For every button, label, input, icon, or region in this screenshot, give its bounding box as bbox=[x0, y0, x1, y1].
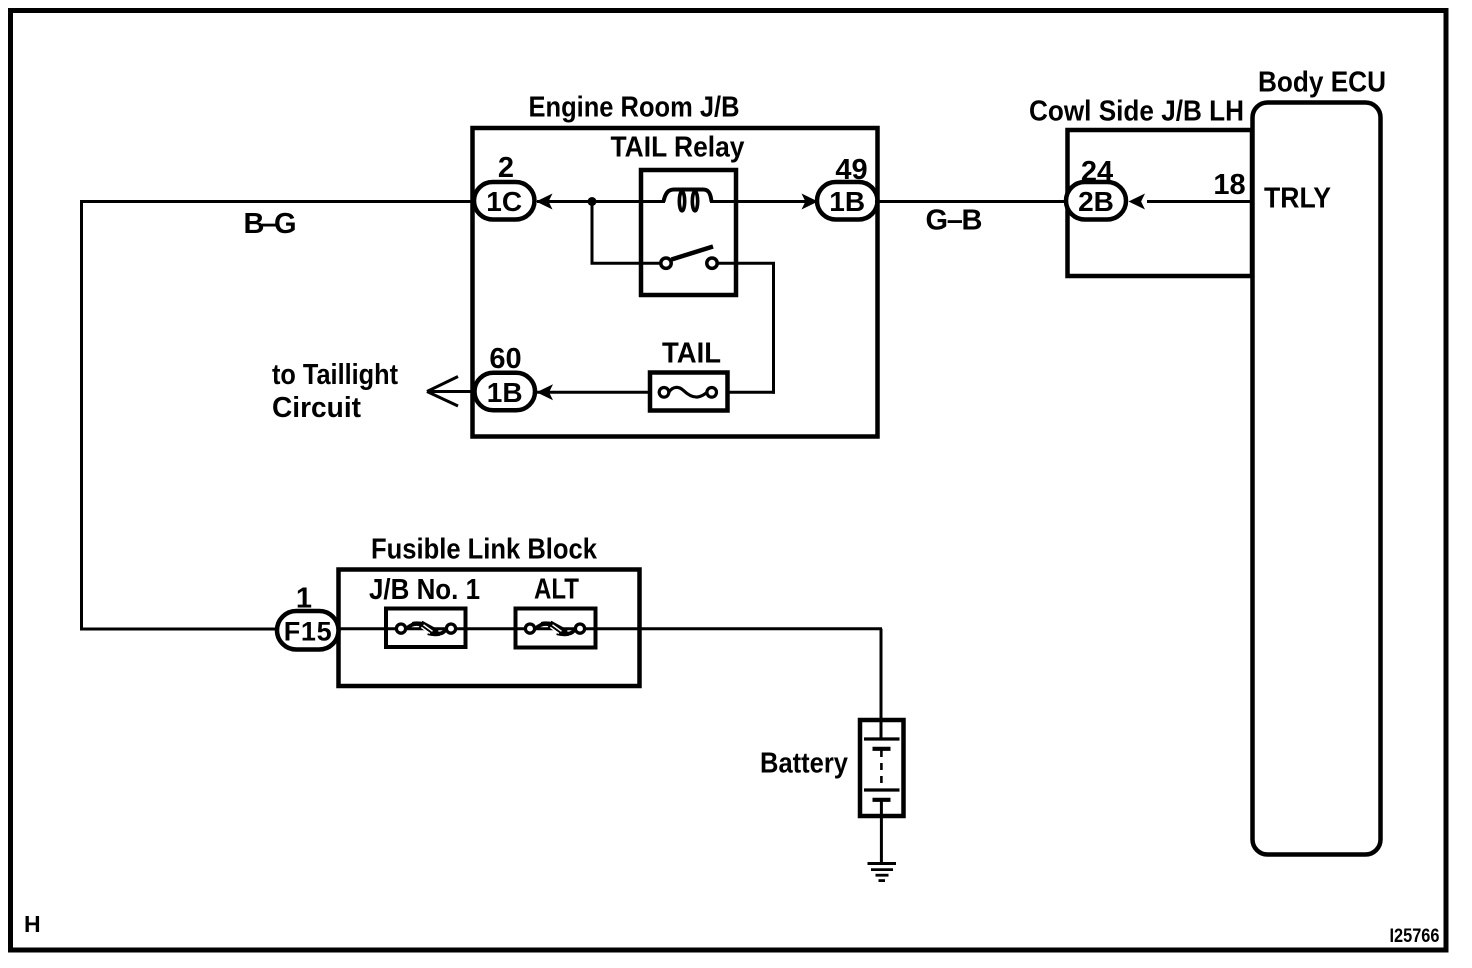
pin label 60 bbox=[489, 343, 521, 375]
svg-text:1B: 1B bbox=[829, 186, 865, 217]
connector 1C bbox=[474, 182, 535, 220]
fusible link J/B No.1 bbox=[386, 609, 466, 648]
wire left vertical B-G down bbox=[80, 200, 83, 631]
Body ECU box bbox=[1253, 103, 1381, 855]
connector F15 bbox=[277, 611, 339, 650]
wire battery to ground bbox=[880, 800, 883, 864]
node junction dot bbox=[588, 197, 597, 206]
label Engine Room J/B bbox=[529, 92, 740, 124]
svg-text:TRLY: TRLY bbox=[1264, 183, 1331, 215]
wire through fusible link block bbox=[336, 627, 882, 630]
pin label 49 bbox=[835, 154, 867, 186]
svg-text:1B: 1B bbox=[487, 377, 523, 408]
wire B-G from node to connector 1C bbox=[80, 200, 476, 203]
svg-text:to Taillight: to Taillight bbox=[272, 359, 398, 391]
connector 1B pin49 bbox=[817, 182, 878, 220]
pin label 18 bbox=[1213, 169, 1245, 201]
label Cowl Side J/B LH bbox=[1029, 96, 1244, 128]
Engine Room J/B box bbox=[473, 128, 878, 437]
wire vertical down to TAIL fuse bbox=[772, 263, 775, 394]
svg-text:TAIL: TAIL bbox=[662, 338, 721, 370]
wire fuse to riser bbox=[713, 391, 775, 394]
label Battery bbox=[760, 748, 848, 780]
fusible link ALT bbox=[516, 609, 596, 648]
svg-text:Circuit: Circuit bbox=[272, 392, 361, 424]
arrow into 2B bbox=[1129, 194, 1146, 210]
wire bottom horizontal to F15 bbox=[80, 628, 280, 631]
wire from relay switch right bbox=[717, 262, 775, 265]
open arrow to taillight circuit bbox=[427, 377, 476, 407]
wire from Body ECU to 2B bbox=[1147, 200, 1253, 203]
Fusible Link Block box bbox=[339, 570, 640, 687]
label TAIL fuse bbox=[662, 338, 721, 370]
pin label 24 bbox=[1081, 156, 1113, 188]
svg-text:F15: F15 bbox=[284, 617, 332, 647]
net label B-G bbox=[244, 208, 297, 240]
pin label 2 bbox=[498, 152, 514, 184]
wire from 1C into relay coil bbox=[537, 200, 665, 203]
sheet label H bbox=[24, 911, 41, 937]
arrow into 1B pin60 bbox=[537, 384, 554, 400]
svg-text:1C: 1C bbox=[486, 186, 522, 217]
svg-text:2B: 2B bbox=[1078, 186, 1114, 217]
wire TAIL fuse to 1B pin60 bbox=[537, 391, 661, 394]
pin label TRLY bbox=[1264, 183, 1331, 215]
wire junction down bbox=[591, 202, 594, 264]
svg-text:Body ECU: Body ECU bbox=[1258, 67, 1386, 99]
svg-text:J/B No. 1: J/B No. 1 bbox=[369, 574, 480, 606]
fuse TAIL bbox=[650, 373, 728, 411]
svg-text:Engine Room J/B: Engine Room J/B bbox=[529, 92, 740, 124]
svg-text:TAIL Relay: TAIL Relay bbox=[611, 132, 745, 164]
arrow into 1B pin49 bbox=[802, 194, 819, 210]
arrow into 1C bbox=[536, 194, 553, 210]
wire down to battery bbox=[880, 629, 883, 739]
relay coil bbox=[664, 190, 712, 211]
connector 1B pin60 bbox=[475, 373, 536, 411]
battery bbox=[860, 720, 904, 816]
label to Taillight Circuit bbox=[272, 359, 398, 424]
wire from relay coil to connector 1B bbox=[710, 200, 817, 203]
svg-text:Cowl Side J/B LH: Cowl Side J/B LH bbox=[1029, 96, 1244, 128]
ground bbox=[868, 864, 897, 881]
wire G-B from 1B to 2B bbox=[875, 200, 1069, 203]
pin label 1 bbox=[296, 583, 312, 615]
svg-text:G–B: G–B bbox=[926, 205, 983, 237]
label J/B No. 1 bbox=[369, 574, 480, 606]
svg-text:ALT: ALT bbox=[534, 574, 579, 606]
svg-text:Fusible Link Block: Fusible Link Block bbox=[371, 534, 598, 566]
svg-text:60: 60 bbox=[489, 343, 521, 375]
svg-text:H: H bbox=[24, 911, 41, 937]
svg-text:B–G: B–G bbox=[244, 208, 297, 240]
svg-text:2: 2 bbox=[498, 152, 514, 184]
label ALT bbox=[534, 574, 579, 606]
label Fusible Link Block bbox=[371, 534, 598, 566]
svg-text:18: 18 bbox=[1213, 169, 1245, 201]
relay switch bbox=[661, 247, 717, 269]
connector 2B bbox=[1066, 182, 1126, 220]
net label G-B bbox=[926, 205, 983, 237]
Cowl Side J/B box bbox=[1068, 130, 1253, 276]
drawing number I25766 bbox=[1390, 925, 1440, 947]
svg-text:Battery: Battery bbox=[760, 748, 848, 780]
svg-text:I25766: I25766 bbox=[1390, 925, 1440, 947]
wire to relay switch bbox=[591, 262, 662, 265]
label TAIL Relay bbox=[611, 132, 745, 164]
relay box bbox=[641, 170, 736, 295]
label Body ECU bbox=[1258, 67, 1386, 99]
